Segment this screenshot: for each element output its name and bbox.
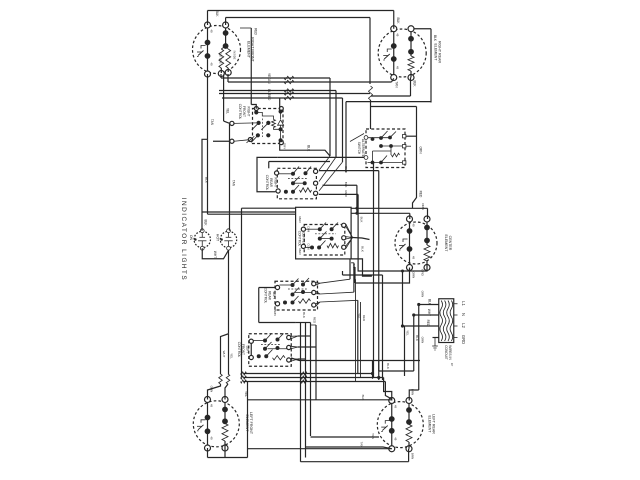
svg-text:49: 49 [396, 33, 400, 37]
svg-text:CONTROL: CONTROL [297, 231, 301, 247]
svg-text:BLK: BLK [361, 395, 365, 401]
svg-text:BLK: BLK [386, 363, 390, 369]
svg-text:TAN: TAN [395, 81, 399, 88]
svg-text:BRN: BRN [411, 389, 415, 395]
svg-text:GRD: GRD [461, 335, 466, 344]
svg-text:HOT: HOT [216, 234, 220, 241]
svg-text:BRN: BRN [273, 309, 277, 315]
svg-text:GRY: GRY [283, 143, 287, 149]
svg-text:INSIDE: INSIDE [233, 51, 237, 60]
svg-text:TAN: TAN [352, 264, 356, 270]
svg-text:CONTROL: CONTROL [237, 342, 241, 358]
svg-text:ELEMENT: ELEMENT [434, 44, 438, 62]
svg-text:ON: ON [189, 235, 193, 241]
svg-text:49: 49 [209, 62, 213, 66]
svg-text:BLK: BLK [302, 312, 306, 318]
svg-text:YEL: YEL [229, 353, 233, 359]
svg-text:CONTROL: CONTROL [264, 288, 268, 304]
svg-text:COM: COM [307, 243, 311, 249]
svg-text:BLK: BLK [415, 335, 419, 341]
svg-text:INDICATOR LIGHTS: INDICATOR LIGHTS [180, 198, 187, 281]
svg-text:BLK: BLK [396, 17, 400, 24]
svg-text:RED: RED [344, 190, 348, 197]
svg-text:CONTROL: CONTROL [238, 104, 242, 120]
svg-text:ORN: ORN [210, 386, 214, 393]
svg-text:49: 49 [209, 29, 213, 33]
svg-text:BLK: BLK [205, 177, 209, 184]
svg-text:YEL: YEL [244, 391, 248, 397]
svg-text:L1: L1 [461, 301, 466, 306]
svg-text:RED: RED [298, 248, 302, 255]
svg-text:ORN: ORN [421, 291, 425, 298]
svg-text:TAN: TAN [210, 119, 214, 126]
svg-text:WHT: WHT [427, 309, 431, 316]
svg-text:YEL: YEL [357, 313, 361, 319]
svg-text:TAN: TAN [267, 77, 271, 84]
svg-text:ORN: ORN [412, 272, 416, 279]
svg-text:RED: RED [313, 317, 317, 324]
svg-text:49: 49 [394, 437, 398, 441]
svg-text:BLK: BLK [204, 219, 208, 226]
svg-text:BLK: BLK [428, 299, 432, 306]
svg-text:SWITCH: SWITCH [357, 142, 361, 155]
svg-text:ORN: ORN [421, 337, 425, 344]
svg-text:COM: COM [307, 226, 311, 232]
svg-text:BLK: BLK [344, 166, 348, 172]
svg-text:GRD: GRD [421, 269, 425, 277]
svg-text:BLK: BLK [433, 35, 437, 42]
svg-text:RED: RED [267, 94, 271, 101]
svg-text:49: 49 [209, 404, 213, 408]
svg-text:ELEMENT: ELEMENT [247, 41, 251, 59]
svg-text:49: 49 [394, 405, 398, 409]
svg-text:CONTROL: CONTROL [265, 175, 269, 191]
svg-text:49: 49 [411, 223, 415, 227]
svg-text:RED: RED [298, 216, 302, 223]
svg-text:WHT: WHT [213, 251, 217, 258]
svg-text:ELEMENT: ELEMENT [428, 416, 432, 434]
svg-text:49: 49 [209, 436, 213, 440]
svg-text:CONDUIT: CONDUIT [444, 345, 448, 360]
svg-text:BRN: BRN [411, 453, 415, 459]
svg-text:49: 49 [411, 256, 415, 260]
svg-text:RED: RED [419, 191, 423, 198]
svg-text:49: 49 [396, 66, 400, 70]
svg-text:TAN: TAN [232, 180, 236, 187]
svg-text:TAN: TAN [360, 442, 364, 448]
svg-text:ORN: ORN [421, 203, 425, 210]
svg-text:N: N [461, 313, 466, 316]
svg-text:WHT: WHT [222, 351, 226, 358]
svg-text:BLK: BLK [413, 80, 417, 87]
svg-text:ORN: ORN [419, 146, 423, 154]
svg-text:RED: RED [254, 28, 258, 35]
svg-text:BLK: BLK [215, 10, 219, 17]
svg-text:YEL: YEL [226, 108, 230, 114]
svg-text:BLK: BLK [359, 217, 363, 223]
svg-text:RED: RED [362, 315, 366, 321]
svg-text:BLK: BLK [360, 246, 364, 252]
svg-text:BLK: BLK [307, 145, 311, 152]
svg-text:RED: RED [426, 320, 430, 327]
svg-text:YEL: YEL [406, 330, 410, 336]
svg-text:L2: L2 [461, 323, 466, 328]
svg-text:1P: 1P [450, 363, 454, 367]
svg-text:OUTSIDE: OUTSIDE [219, 52, 223, 64]
svg-text:ELEMENT: ELEMENT [444, 235, 448, 253]
svg-text:TAN: TAN [371, 433, 375, 439]
svg-text:BLK: BLK [344, 182, 348, 188]
